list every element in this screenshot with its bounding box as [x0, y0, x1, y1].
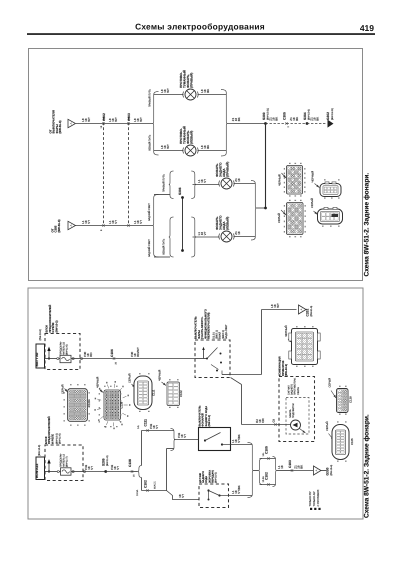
wire S300 to C305 (dashed)	[266, 123, 287, 125]
svg-text:WT: WT	[166, 144, 170, 149]
svg-text:(ПРАВЫЙ): (ПРАВЫЙ)	[190, 73, 194, 88]
feed arrow up (run)	[48, 463, 50, 472]
svg-text:C202: C202	[102, 113, 106, 121]
svg-text:VT: VT	[87, 220, 91, 224]
wire to backup lamp left	[193, 236, 220, 238]
svg-text:СЕРЫЙ: СЕРЫЙ	[327, 378, 331, 388]
svg-text:BATT A0: BATT A0	[35, 352, 39, 366]
switch internals	[195, 358, 207, 360]
svg-text:A: A	[299, 308, 303, 310]
svg-text:18: 18	[237, 178, 241, 182]
svg-text:VT: VT	[155, 425, 159, 429]
svg-text:WT: WT	[166, 88, 170, 93]
svg-text:И РЕЛЕ: И РЕЛЕ	[51, 434, 54, 444]
svg-text:BK: BK	[206, 89, 210, 93]
svg-text:(8W-10-2): (8W-10-2)	[55, 320, 58, 332]
upper via C105	[260, 458, 276, 460]
wire merge to S300 branch	[257, 207, 266, 209]
wire to C103	[277, 470, 292, 472]
wire row A seg3	[129, 123, 153, 125]
lower branch via C102	[141, 478, 143, 491]
svg-text:14L: 14L	[137, 424, 140, 429]
svg-text:(8W-10-6): (8W-10-6)	[39, 329, 42, 340]
svg-text:ЗАДНИЙ СВЕТ: ЗАДНИЙ СВЕТ	[147, 203, 151, 221]
splice bus S306	[182, 198, 184, 251]
svg-text:C105: C105	[350, 438, 354, 445]
wire to C106	[80, 358, 114, 360]
svg-text:419: 419	[360, 23, 374, 33]
svg-text:G302: G302	[326, 112, 330, 120]
svg-text:BK: BK	[237, 117, 241, 121]
svg-text:C111: C111	[152, 389, 156, 396]
svg-text:ПРАВЫЙ ПУТЬ: ПРАВЫЙ ПУТЬ	[148, 89, 152, 107]
svg-text:A: A	[69, 122, 73, 124]
svg-text:S306: S306	[178, 187, 182, 195]
svg-text:СЕРЫЙ: СЕРЫЙ	[310, 198, 314, 208]
wire row A seg2	[104, 123, 129, 125]
svg-text:(8W-15-4): (8W-15-4)	[330, 465, 333, 476]
row B lower branch stub	[154, 256, 170, 258]
svg-text:18: 18	[237, 231, 241, 235]
feed arrow up	[48, 350, 50, 359]
svg-text:BK: BK	[275, 117, 279, 121]
svg-text:C3: C3	[272, 419, 275, 423]
wire C305 to S304 (dashed)	[287, 123, 308, 125]
svg-text:(ЛЕВЫЙ): (ЛЕВЫЙ)	[226, 217, 230, 230]
wire into fuse	[45, 358, 61, 360]
connector C305 in-line	[285, 122, 287, 124]
wire C103 to ground connector	[292, 470, 313, 472]
splice S209	[104, 470, 107, 473]
svg-text:VT: VT	[90, 466, 94, 470]
pin number leaders around connector C138 detail	[124, 404, 128, 406]
svg-text:(8W-15-21): (8W-15-21)	[331, 108, 334, 120]
svg-text:18: 18	[280, 465, 284, 469]
svg-text:ЛЕВЫЙ ПУТЬ: ЛЕВЫЙ ПУТЬ	[148, 134, 152, 151]
indicator lamp	[291, 420, 301, 430]
svg-text:С ПРОТИВОТ.: С ПРОТИВОТ.	[317, 489, 320, 507]
svg-text:VT: VT	[183, 434, 187, 438]
wire into fuse 12	[45, 471, 61, 473]
fuse box (battery) dashed	[45, 334, 80, 370]
svg-text:(8W-51-3): (8W-51-3)	[57, 220, 61, 233]
svg-text:(8W-11-7): (8W-11-7)	[66, 456, 69, 467]
svg-text:BK: BK	[300, 465, 304, 469]
ground G302	[328, 120, 334, 128]
svg-text:(8W-40-9): (8W-40-9)	[285, 364, 288, 376]
merge brace C105/C102	[273, 457, 277, 487]
wire to backup lamp right	[193, 184, 220, 186]
svg-text:СЕРЫЙ: СЕРЫЙ	[325, 421, 329, 431]
switch feed to instrument cluster	[231, 378, 242, 385]
svg-text:A: A	[314, 469, 318, 471]
svg-text:СВЕТА: СВЕТА	[297, 387, 300, 395]
nested brace lower {	[169, 217, 174, 257]
bottom diagram frame	[28, 288, 363, 519]
row B upper branch stub	[154, 194, 170, 196]
svg-text:C138: C138	[128, 459, 132, 467]
wire S209 to C138	[106, 471, 132, 473]
wire backup switch out	[231, 444, 253, 446]
wire row B seg1	[76, 225, 153, 227]
svg-text:WT: WT	[139, 117, 143, 122]
svg-text:C102: C102	[179, 390, 183, 397]
svg-text:VT: VT	[116, 466, 120, 470]
svg-text:WT: WT	[87, 117, 91, 122]
split brace to fog lamps	[153, 92, 159, 156]
svg-text:WT: WT	[114, 117, 118, 122]
svg-text:RD/WT: RD/WT	[136, 347, 140, 357]
svg-text:(8W-11-6): (8W-11-6)	[66, 344, 69, 355]
nested brace upper {	[169, 171, 174, 199]
in-line connector C106	[113, 357, 115, 359]
cluster inner box (dashed)	[286, 398, 309, 435]
svg-text:C106: C106	[110, 349, 114, 357]
svg-text:C303: C303	[127, 113, 131, 121]
svg-text:G300: G300	[326, 467, 330, 475]
wire sensor out	[229, 495, 253, 497]
split brace row B	[153, 195, 159, 258]
svg-text:RUN A22: RUN A22	[35, 464, 39, 478]
svg-text:ТОЛЬКО А/У: ТОЛЬКО А/У	[313, 491, 316, 507]
svg-text:VT/BK: VT/BK	[237, 485, 241, 493]
svg-text:СЕРЫЙ: СЕРЫЙ	[127, 373, 131, 383]
splice S304	[306, 122, 309, 125]
wire to left fog lamp	[154, 150, 184, 152]
svg-text:(8W-31-2): (8W-31-2)	[208, 415, 211, 427]
merge brace backup lamps	[251, 181, 257, 241]
svg-text:C105: C105	[264, 446, 268, 454]
svg-text:ЧЕРНЫЙ: ЧЕРНЫЙ	[311, 171, 315, 183]
wire to right fog lamp	[154, 94, 184, 96]
svg-text:BK: BK	[316, 117, 320, 121]
wire from backup lamp left	[234, 236, 256, 238]
svg-text:СЕРЫЙ: СЕРЫЙ	[277, 213, 281, 223]
svg-text:S304: S304	[303, 112, 307, 120]
svg-text:ЧЕРНЫЙ: ЧЕРНЫЙ	[157, 370, 161, 381]
svg-text:BK: BK	[206, 145, 210, 149]
svg-text:(8W-11-9): (8W-11-9)	[106, 455, 109, 466]
svg-text:S300: S300	[262, 112, 266, 120]
wire from right fog lamp	[198, 94, 227, 96]
svg-text:C103: C103	[288, 460, 292, 468]
svg-text:ЗАДНИЙ СВЕТ: ЗАДНИЙ СВЕТ	[147, 239, 151, 257]
svg-text:ЗАДН.СВЕТ: ЗАДН.СВЕТ	[225, 324, 228, 339]
wire fuse to box edge	[71, 358, 80, 360]
S300 branch down	[265, 124, 267, 209]
svg-text:WT: WT	[276, 303, 280, 308]
svg-text:C305: C305	[282, 112, 286, 120]
svg-text:ПРАВЫЙ ПУТЬ: ПРАВЫЙ ПУТЬ	[162, 174, 166, 192]
ground connector triangle	[314, 466, 322, 475]
svg-text:ПОДСВЕТКИ: ПОДСВЕТКИ	[292, 403, 295, 418]
svg-text:ЧЕРНЫЙ: ЧЕРНЫЙ	[284, 325, 288, 337]
header rule	[27, 33, 375, 35]
svg-text:(8W-31-5): (8W-31-5)	[215, 472, 218, 483]
fuse box (run) dashed	[45, 445, 83, 481]
transmission sensor feed	[167, 491, 200, 500]
nested brace lower }	[191, 217, 196, 257]
svg-text:OR: OR	[261, 418, 265, 422]
top diagram frame	[29, 49, 363, 281]
svg-text:ЧЕРНЫЙ: ЧЕРНЫЙ	[277, 174, 281, 186]
connector C202 crossing + harness dashed line	[103, 118, 105, 226]
wire row A seg1	[76, 123, 104, 125]
wire from backup lamp right	[234, 183, 256, 185]
svg-text:ЧЕРНЫЙ: ЧЕРНЫЙ	[96, 377, 100, 388]
split brace after C138	[132, 471, 138, 473]
split brace to C105/C102	[254, 470, 259, 472]
svg-text:(ЛЕВЫЙ): (ЛЕВЫЙ)	[190, 131, 194, 144]
svg-text:C111: C111	[143, 419, 147, 427]
merge brace switch+sensor	[248, 443, 254, 498]
wire merge to S300	[228, 123, 266, 125]
svg-text:(8W-51-3): (8W-51-3)	[58, 121, 62, 134]
wire from left fog lamp	[198, 150, 227, 152]
svg-text:Схема 8W-51-2. Задние фонари.: Схема 8W-51-2. Задние фонари.	[364, 173, 371, 277]
svg-text:ПЕРЕКЛЮЧАТЕЛЯ): ПЕРЕКЛЮЧАТЕЛЯ)	[207, 312, 211, 339]
svg-text:Схема 8W-51-2. Задние фонари.: Схема 8W-51-2. Задние фонари.	[364, 414, 371, 518]
merge brace into backup switch	[171, 429, 176, 451]
connector C202 triangle out	[299, 305, 307, 314]
in-line connector C138	[131, 470, 133, 472]
splice S300	[264, 122, 267, 125]
wire C106 to headlamp switch	[114, 358, 195, 360]
svg-text:(8W-11-6): (8W-11-6)	[59, 433, 62, 444]
wire switch out up to C202	[230, 374, 262, 376]
svg-text:M/ACC: M/ACC	[154, 481, 157, 489]
merge brace fog lamps	[221, 90, 228, 157]
svg-text:C106: C106	[87, 400, 91, 407]
svg-text:C102: C102	[143, 480, 147, 488]
lower via C102	[260, 484, 276, 486]
svg-text:S209: S209	[101, 458, 105, 466]
svg-text:C202: C202	[306, 309, 310, 317]
nested brace upper }	[191, 171, 196, 199]
svg-text:VT: VT	[181, 494, 185, 498]
svg-text:VT: VT	[203, 179, 207, 183]
svg-text:BK: BK	[295, 117, 299, 121]
upper branch to backup switch	[141, 431, 143, 466]
svg-text:(8W-51-6): (8W-51-6)	[310, 306, 313, 317]
svg-text:A: A	[69, 224, 73, 226]
svg-text:Схемы электрооборудования: Схемы электрооборудования	[135, 22, 265, 32]
svg-text:(ПРАВЫЙ): (ПРАВЫЙ)	[226, 162, 230, 177]
wire to splice S209	[83, 471, 106, 473]
svg-text:(8W-10-6): (8W-10-6)	[38, 445, 41, 456]
svg-text:10.5A: 10.5A	[136, 489, 139, 496]
svg-text:VT: VT	[203, 231, 207, 235]
svg-text:C138: C138	[349, 396, 353, 403]
riser joining branches	[166, 449, 168, 491]
svg-text:VT: VT	[114, 220, 118, 224]
svg-text:VT: VT	[139, 220, 143, 224]
svg-text:VT/BK: VT/BK	[237, 434, 241, 442]
connector C303 crossing + harness dashed line	[128, 118, 130, 226]
svg-text:C102: C102	[264, 472, 268, 480]
svg-text:C138: C138	[120, 401, 124, 408]
svg-text:ЛЕВЫЙ ПУТЬ: ЛЕВЫЙ ПУТЬ	[162, 238, 166, 255]
svg-text:ТОЛЬКО Р/У: ТОЛЬКО Р/У	[309, 491, 312, 507]
svg-text:RD: RD	[89, 353, 93, 357]
wire S304 to ground G302	[307, 123, 327, 125]
